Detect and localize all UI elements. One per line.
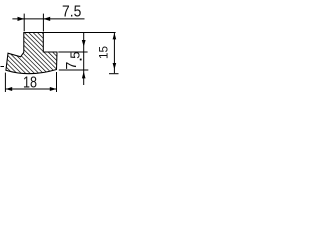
lower arrow pointing down <box>113 63 117 70</box>
right arrow pointing right <box>50 87 57 91</box>
dimension line vertical <box>83 33 85 85</box>
arrow pointing left at right ext <box>43 17 50 21</box>
svg-text:5: 5 <box>68 52 83 59</box>
dimension 15 (vertical, far right) <box>113 33 115 73</box>
upper arrow pointing up <box>113 33 117 40</box>
dimension line <box>5 88 56 90</box>
extension line y=70 <box>59 69 89 71</box>
bottom tick <box>109 73 119 75</box>
svg-text:7.5: 7.5 <box>62 4 81 21</box>
upper arrow pointing down <box>82 40 86 47</box>
extension line right <box>42 14 44 32</box>
dimension 18 (bottom): extension line left <box>4 73 6 92</box>
left arrow pointing left <box>6 87 13 91</box>
extension line y=52 <box>58 51 87 53</box>
profile cross-section (hatched body) <box>6 33 57 74</box>
svg-text:18: 18 <box>23 75 37 92</box>
extension line right <box>56 72 58 92</box>
horizontal extension line from stem top to right <box>43 32 115 34</box>
small tick left of base <box>1 66 5 68</box>
dimension 7.5 (top): extension line left <box>23 14 25 32</box>
lower arrow pointing up <box>82 71 86 78</box>
dimension line <box>12 18 84 20</box>
svg-text:7: 7 <box>64 62 80 70</box>
decimal point of rotated 7.5 <box>80 59 82 61</box>
arrow pointing right at left ext <box>18 17 25 21</box>
svg-text:15: 15 <box>97 46 111 59</box>
